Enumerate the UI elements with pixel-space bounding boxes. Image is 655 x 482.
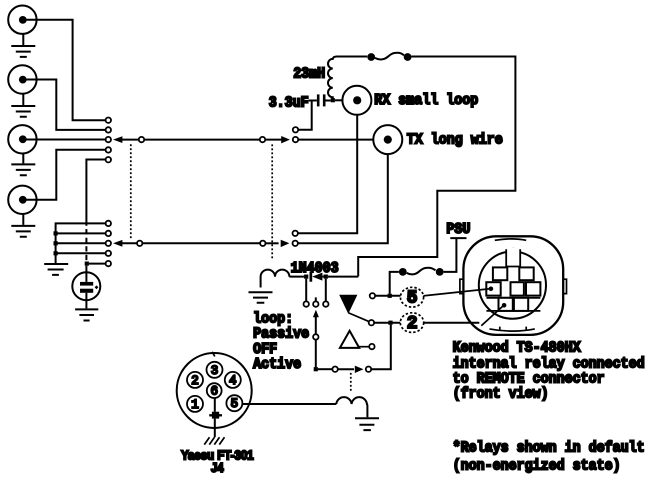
wire J2 to selector contact 2 [27,80,106,130]
label Active [253,356,301,373]
Kenwood DIN outer shell [463,236,563,335]
wire NO contact to capacitor [298,101,312,130]
svg-text:(non-energized state): (non-energized state) [453,457,621,474]
DIN pin hole bottom-left (pin 2) [499,298,513,311]
label L1 value [293,66,325,83]
label TX long wire [407,132,503,149]
relay K2 wiper row [332,325,390,373]
relay K1a NO contact (RX) [293,127,298,132]
label relays note line1 [453,439,645,456]
wire K1a NC to TX jack [298,139,373,141]
ground under K2 coil [355,418,379,430]
label C1 value [269,94,309,111]
ground bus symbol [44,264,68,275]
wire switch to PSU [444,239,457,272]
Yaesu pin 4 [225,372,241,388]
Yaesu pin 2 [187,372,203,388]
switch S1 blade [375,53,404,60]
svg-text:TX long wire: TX long wire [407,132,503,149]
DIN pin hole mid-center [511,282,524,295]
wire J1 to selector contact 1 [27,20,106,121]
label Yaesu FT-301 [181,448,254,462]
svg-text:5: 5 [231,397,239,411]
ground under GDT [75,309,98,320]
selector deck B wiper arrow [113,240,122,247]
switch S1 left terminal [367,53,375,61]
PSU terminal bar [450,237,466,239]
Yaesu pin 1 [187,396,203,412]
wire wiper B to relay K1b pivot [142,242,260,244]
selector deck B contact 3 [106,241,111,246]
DIN shell tab top [495,239,526,252]
svg-text:6: 6 [210,385,218,399]
net 2 diagonal to DIN pin [481,305,504,326]
relay K1b TX contact [293,241,298,246]
DIN pin 2 dot [502,303,507,308]
grounding deck B bus [56,223,137,263]
svg-text:1N4003: 1N4003 [291,260,339,277]
junction bus row3 [54,241,58,245]
relay K1a pivot [260,137,265,142]
Yaesu pin 5 [226,395,242,411]
svg-text:1: 1 [191,398,199,412]
wire junction to RX jack [335,99,342,101]
DIN pin hole mid-right [526,282,540,295]
junction cap/inductor/RX [331,98,335,102]
svg-text:J4: J4 [211,461,224,475]
relay K2 upper NO contact [370,293,375,298]
svg-text:Active: Active [253,356,301,373]
circled 2 [400,313,423,334]
svg-text:2: 2 [191,374,199,388]
selector deck A wiper pivot [139,137,144,142]
relay K1a armature arrow [265,136,290,143]
DIN shell tab right [563,279,566,293]
RX small loop jack [342,86,371,115]
wire S1 to right side down to relay coil feed [358,57,515,277]
svg-text:(front view): (front view) [453,385,549,402]
antenna jack J1 [8,6,36,34]
selector deck A contact 5 [106,157,111,162]
Yaesu pin 6 [207,383,222,398]
DIN pin 5 dot [489,287,494,292]
inductor L1 23mH [328,57,367,101]
label D1 value [291,260,339,277]
label Kenwood line3 [453,370,605,387]
junction bus row4 [54,251,58,255]
wire J3 to selector contact 3 [27,139,106,141]
mechanical linkage selector decks (dotted) [130,144,132,240]
antenna jack J4 [8,186,36,214]
selector deck B contact 1 [106,221,111,226]
wire TX jack bottom to relay K1b TX contact [298,154,388,243]
label J4 [211,461,224,475]
selector deck B wiper pivot [137,241,142,246]
pin drop left [304,279,309,307]
junction GDT node [85,262,106,266]
wire J4 to selector contact 4 [27,150,106,200]
label Kenwood line1 [453,339,581,356]
chassis ground hatching [204,437,224,444]
capacitor C1 3.3uF [309,94,331,106]
relay K2 upper armature (energized side) [339,295,369,322]
circled 5 [400,287,423,308]
DIN pin hole mid-left (pin 5) [486,282,500,295]
diode D1 1N4003 [310,272,325,282]
wire ferrite to chassis ground [214,419,216,438]
antenna jack J2 [8,65,36,93]
wire pin 6 to chassis [214,398,216,412]
svg-text:2: 2 [407,314,418,334]
svg-text:3: 3 [211,364,219,378]
mechanical linkage relay K2 (dotted) [350,373,352,393]
PSU switch right terminal [436,268,444,276]
DIN shell tab left [460,279,463,293]
selector deck A contact 1 [106,118,111,123]
label OFF [253,341,277,358]
ground under J4 [11,214,35,237]
label Kenwood line4 [453,385,549,402]
PSU switch blade [407,268,436,275]
label loop: [253,311,293,328]
selector deck A contact 4 [106,147,111,152]
DIN inner circle [479,252,546,319]
Yaesu pin 3 [207,362,223,378]
DIN pin hole top-right [519,267,533,280]
svg-text:*Relays shown in default: *Relays shown in default [453,439,645,456]
label relays note line2 [453,457,621,474]
ground under K1 coil [249,292,273,303]
svg-text:5: 5 [407,289,418,309]
relay K1b RX contact [293,231,298,236]
wire RX jack bottom to relay K1b RX contact [298,115,357,234]
ferrite bead on pin 6 lead [209,412,222,419]
svg-text:3.3uF: 3.3uF [269,94,309,111]
label Passive [253,326,309,343]
wire NO contact to net5/PSU [375,272,400,298]
DIN key notch [506,248,520,267]
selector deck A wiper arrow [113,136,139,143]
net 2 line [369,320,480,325]
ground under J1 [11,34,35,57]
relay K1a NC contact (TX) [293,137,298,142]
gas discharge tube GDT [72,266,100,309]
loop select arrow [313,310,319,335]
junction bus row2 [54,231,58,235]
wire coil to diode [289,276,308,278]
label Kenwood line2 [453,355,645,372]
relay K2 lower armature (released side) [340,331,369,348]
relay K2 coil [243,397,368,417]
junction D1 anode pin [304,275,308,279]
selector deck B contact 4 [106,251,111,256]
svg-text:23mH: 23mH [293,66,325,83]
loop select connector [313,334,318,339]
pin drop right [323,279,328,307]
selector deck B contact 5 [106,261,111,266]
wire wiper A to relay K1a pivot [144,139,260,141]
wire loop line down to K2 wiper [314,340,333,372]
PSU switch left terminal [399,268,407,276]
mechanical linkage relay K1 (dotted) [271,144,273,260]
antenna jack J3 [8,125,36,153]
DIN bottom slot [486,298,540,311]
switch S1 right terminal [404,53,412,61]
TX long wire jack [373,125,402,154]
pin middle [313,297,318,306]
junction D1 cathode pin [324,275,359,279]
label RX small loop [374,92,478,109]
svg-text:4: 4 [229,374,237,388]
relay K1 coil [261,270,290,288]
selector deck A contact 2 [106,127,111,132]
DIN pin hole top-left [493,267,507,280]
ground under J3 [11,154,35,176]
svg-text:PSU: PSU [446,221,470,238]
relay K2 lower open contact [369,344,374,349]
wire selector contact 5 to GDT [86,160,105,262]
net 5 line to DIN pin [400,289,489,296]
DIN shell tab bottom [490,327,535,331]
selector deck B contact 2 [106,231,111,236]
label PSU [446,221,470,238]
relay K1b pivot [260,241,265,246]
Yaesu connector J4 outline [177,353,252,428]
selector deck A contact 3 [106,137,111,142]
ground under J2 [11,94,35,117]
svg-text:RX small loop: RX small loop [374,92,478,109]
relay K1b armature arrow [266,240,290,247]
svg-text:Kenwood TS-480HX: Kenwood TS-480HX [453,339,581,356]
DIN pin hole bottom-right [514,298,528,311]
Yaesu connector key tick [212,352,215,357]
